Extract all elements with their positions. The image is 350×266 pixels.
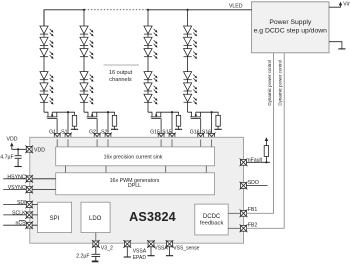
- svg-text:e.g DCDC step up/down: e.g DCDC step up/down: [254, 28, 328, 35]
- wire: SDO stub: [246, 185, 267, 187]
- label: 16 output channels: [104, 65, 140, 83]
- pin G1: [49, 130, 61, 141]
- pin SDI: [17, 200, 33, 208]
- svg-text:SDI: SDI: [17, 200, 26, 206]
- resistor R16 (sense): [216, 115, 220, 126]
- wire: HSYNC stub: [3, 178, 56, 180]
- pin S2: [101, 130, 112, 141]
- wire: DCDC feedback to FB1: [228, 212, 241, 214]
- ground (VSS_sense): [166, 255, 173, 257]
- node: string 16 tap: [187, 9, 189, 11]
- svg-text:VSS_sense: VSS_sense: [173, 246, 199, 252]
- wire: source line ch2: [92, 112, 114, 133]
- wire: VSYNC stub: [3, 189, 56, 191]
- block: SPI: [38, 202, 72, 232]
- svg-text:VDD: VDD: [34, 147, 45, 153]
- wire: [265, 141, 267, 146]
- pin G2: [89, 130, 101, 141]
- svg-text:AS3824: AS3824: [129, 210, 176, 224]
- ground (C2): [92, 260, 99, 262]
- svg-text:HSYNC: HSYNC: [7, 174, 25, 180]
- transistor Q16: [188, 112, 201, 133]
- resistor R17 (nFault pull-up): [264, 146, 268, 157]
- svg-text:DPLL: DPLL: [128, 183, 141, 189]
- node: source junction ch1: [67, 111, 69, 113]
- wire: power supply ground stub: [329, 42, 342, 49]
- wire: source line ch1: [52, 112, 74, 133]
- ground (VSSA EPAD): [124, 256, 131, 258]
- wire: [114, 126, 116, 129]
- wire: [126, 246, 128, 257]
- wire: FB2 to dynamic power control line 2: [246, 53, 284, 228]
- svg-text:feedback: feedback: [200, 220, 224, 226]
- wire: [169, 246, 171, 256]
- svg-text:VDD: VDD: [7, 137, 18, 143]
- pin VSYNC: [8, 185, 33, 193]
- wire: [150, 246, 152, 256]
- pin FB1: [240, 207, 258, 217]
- pin S1: [61, 130, 72, 141]
- pin G15: [150, 130, 165, 141]
- wire: VLED bus right section: [148, 9, 252, 11]
- pin nCS: [16, 221, 34, 230]
- wire: nFault pullup net: [246, 156, 270, 162]
- svg-text:DCDC: DCDC: [203, 214, 221, 220]
- svg-text:VSSA: VSSA: [133, 249, 147, 255]
- node: source junction ch15: [171, 111, 173, 113]
- wire: FB1 to dynamic power control line 1: [246, 53, 273, 213]
- transistor Q2: [84, 112, 97, 133]
- pin VSSA/EPAD: [123, 240, 146, 261]
- pin VSS_sense: [166, 240, 200, 252]
- pin FB2: [240, 222, 258, 232]
- wire: source line ch15: [156, 112, 178, 133]
- node: string 15 tap: [147, 9, 149, 11]
- VDD supply arrow: [7, 137, 18, 147]
- svg-text:Power Supply: Power Supply: [269, 19, 312, 26]
- AS3824 chip body: [30, 137, 244, 243]
- wire: Vin stub: [329, 5, 341, 7]
- ground (power supply): [338, 48, 345, 50]
- LED string 2 diodes: [80, 26, 94, 36]
- block: 16x precision current sink: [56, 147, 215, 166]
- svg-text:G16: G16: [190, 130, 200, 136]
- svg-text:SPI: SPI: [50, 216, 60, 222]
- capacitor C2 2.2uF: [92, 246, 101, 261]
- pin HSYNC: [7, 174, 33, 182]
- svg-text:Dynamic power control: Dynamic power control: [267, 60, 272, 106]
- ground (R15): [175, 128, 182, 130]
- svg-text:EPAD: EPAD: [133, 255, 147, 261]
- svg-text:SDO: SDO: [248, 180, 259, 186]
- wire: VLED bus: [44, 10, 85, 28]
- ground (R16): [215, 128, 222, 130]
- svg-text:G2: G2: [89, 130, 96, 136]
- wire: SDI stub: [3, 204, 37, 206]
- node: nFault pullup junction: [265, 161, 267, 163]
- svg-text:2.2µF: 2.2µF: [76, 253, 89, 259]
- pin VDD: [25, 145, 45, 153]
- resistor R1 (sense): [72, 115, 76, 126]
- wire: SCLK stub: [3, 214, 37, 216]
- wire: [74, 126, 76, 129]
- svg-text:16 output: 16 output: [109, 70, 133, 76]
- wire: [217, 126, 219, 129]
- svg-text:16x precision current sink: 16x precision current sink: [104, 154, 163, 160]
- svg-text:LDO: LDO: [89, 216, 102, 222]
- svg-text:VLED: VLED: [229, 4, 243, 10]
- wire: LDO to V3_2 pin: [95, 233, 97, 241]
- svg-text:nCS: nCS: [16, 221, 27, 227]
- pin V3_2: [92, 240, 113, 251]
- svg-text:S2: S2: [101, 130, 107, 136]
- pin S15: [162, 130, 176, 141]
- pin nFault: [240, 158, 263, 167]
- svg-text:S15: S15: [162, 130, 171, 136]
- svg-text:S16: S16: [202, 130, 211, 136]
- wire: string 1 drop: [43, 10, 45, 112]
- transistor Q1: [44, 112, 57, 133]
- wire: DCDC feedback to FB2: [228, 227, 241, 229]
- pin G16: [190, 130, 205, 141]
- wires: G/S pins into current sink block: [57, 139, 211, 147]
- ground (VSSA): [147, 255, 154, 257]
- node: source junction ch2: [107, 111, 109, 113]
- node: source junction ch16: [211, 111, 213, 113]
- LED string channel 2: [80, 10, 118, 141]
- wires: current sink to PWM block: [65, 166, 206, 173]
- svg-text:FB2: FB2: [248, 222, 258, 228]
- wire: VLED bus dashed section: [85, 9, 148, 11]
- resistor R15 (sense): [176, 115, 180, 126]
- pin SDO: [240, 180, 259, 190]
- LED string channel 15: [144, 10, 182, 141]
- block: LDO: [81, 202, 110, 232]
- ground (R2): [111, 128, 118, 130]
- wire: string 15 drop: [147, 10, 149, 112]
- wire: source line ch16: [196, 112, 218, 133]
- node: string 2 tap: [83, 9, 85, 11]
- block: 16x PWM generators DPLL: [56, 173, 215, 195]
- pin SCLK: [12, 210, 33, 218]
- svg-text:SCLK: SCLK: [12, 210, 26, 216]
- power supply box: [252, 2, 329, 53]
- wire: VDD to pin: [12, 146, 27, 149]
- capacitor C1 4.7uF: [15, 149, 22, 166]
- pin VSSA: [147, 240, 168, 252]
- svg-text:Vin: Vin: [343, 2, 350, 8]
- node: VDD cap junction: [17, 148, 19, 150]
- pin S16: [202, 130, 216, 141]
- wire: string 2 drop: [83, 10, 85, 112]
- svg-text:G1: G1: [49, 130, 56, 136]
- resistor R2 (sense): [112, 115, 116, 126]
- LED string channel 16: [184, 10, 222, 141]
- svg-text:G15: G15: [150, 130, 160, 136]
- svg-text:Dynamic power control: Dynamic power control: [278, 60, 283, 106]
- block: DCDC feedback: [195, 204, 228, 235]
- LED string channel 1: [40, 10, 78, 141]
- LED string 1 diodes: [40, 26, 54, 36]
- svg-text:FB1: FB1: [248, 207, 258, 213]
- transistor Q15: [148, 112, 161, 133]
- svg-text:channels: channels: [109, 77, 132, 83]
- svg-text:V3_2: V3_2: [101, 245, 113, 251]
- svg-text:VSYNC: VSYNC: [8, 185, 26, 191]
- LED string 15 diodes: [144, 26, 158, 36]
- LED string 16 diodes: [184, 26, 198, 36]
- ground (R1): [71, 128, 78, 130]
- VDD supply arrow (pull-up): [265, 137, 268, 141]
- svg-text:4.7µF: 4.7µF: [0, 155, 13, 161]
- wire: string 16 drop: [187, 10, 189, 112]
- Vin supply arrow: [339, 2, 342, 6]
- svg-text:S1: S1: [61, 130, 67, 136]
- wire: nCS stub: [3, 224, 37, 226]
- wire: [178, 126, 180, 129]
- ground (C1): [15, 166, 22, 168]
